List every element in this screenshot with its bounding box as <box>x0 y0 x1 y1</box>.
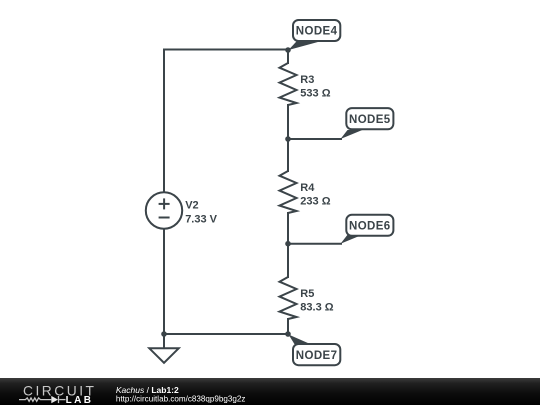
svg-text:NODE6: NODE6 <box>349 220 391 232</box>
wire top horizontal <box>164 49 288 51</box>
wire NODE5 stub <box>288 138 341 140</box>
svg-text:83.3 Ω: 83.3 Ω <box>300 302 333 314</box>
wire right rail between R3 and R4 <box>287 105 289 171</box>
wire bottom horizontal <box>164 333 288 335</box>
wire left rail upper <box>163 50 165 193</box>
svg-text:LAB: LAB <box>66 395 94 405</box>
wire right rail top lead <box>287 50 289 64</box>
resistor R5 <box>280 277 334 319</box>
node NODE6 <box>341 215 394 244</box>
svg-text:NODE5: NODE5 <box>349 114 391 126</box>
ground <box>149 334 178 363</box>
svg-text:http://circuitlab.com/c838qp9b: http://circuitlab.com/c838qp9bg3g2z <box>116 394 246 403</box>
svg-text:NODE4: NODE4 <box>296 26 338 38</box>
wire right rail bottom lead <box>287 319 289 334</box>
node NODE5 <box>341 108 394 139</box>
svg-text:R5: R5 <box>300 288 314 300</box>
junction dot ground <box>161 331 167 337</box>
wire right rail between R4 and R5 <box>287 213 289 277</box>
junction dot node6 <box>285 241 291 247</box>
resistor R4 <box>280 171 331 213</box>
svg-text:533 Ω: 533 Ω <box>300 88 330 100</box>
svg-text:233 Ω: 233 Ω <box>300 196 330 208</box>
svg-text:R3: R3 <box>300 74 314 86</box>
svg-text:7.33 V: 7.33 V <box>185 213 217 225</box>
svg-text:R4: R4 <box>300 182 315 194</box>
junction dot node5 <box>285 136 291 142</box>
svg-text:NODE7: NODE7 <box>296 350 338 362</box>
node NODE4 <box>289 20 341 50</box>
voltage source V2 <box>146 192 218 228</box>
svg-text:Kachus / Lab1:2: Kachus / Lab1:2 <box>116 385 179 395</box>
resistor R3 <box>280 63 331 105</box>
node NODE7 <box>289 335 341 366</box>
wire left rail lower <box>163 229 165 334</box>
wire NODE6 stub <box>288 243 341 245</box>
junction dot node4 <box>285 47 291 53</box>
CircuitLab logo resistor-diode line <box>19 396 66 403</box>
junction dot node7 <box>285 331 291 337</box>
svg-text:V2: V2 <box>185 200 198 212</box>
